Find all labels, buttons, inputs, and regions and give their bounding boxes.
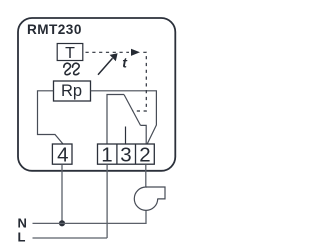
wire Rp left to terminal 4 — [38, 91, 64, 144]
wire Rp right down to terminal 2 — [91, 91, 157, 144]
sensor T box — [57, 44, 83, 61]
actuator circle — [134, 187, 157, 210]
svg-text:t: t — [122, 54, 128, 70]
switch blade — [124, 95, 141, 126]
temperature rise arrow — [98, 58, 113, 74]
dashed corner down to blade — [133, 52, 147, 111]
fixed contact stub terminal 3 — [125, 127, 127, 145]
junction dot on N line — [59, 220, 65, 226]
svg-text:T: T — [65, 45, 75, 62]
dashed action line from sensor T — [86, 51, 130, 53]
resistor Rp box — [54, 81, 91, 101]
svg-text:RMT230: RMT230 — [27, 22, 82, 37]
svg-text:L: L — [18, 229, 26, 244]
wire terminal 4 to N junction — [61, 164, 63, 223]
arrowhead on dashed line — [131, 49, 140, 56]
wire terminal 1 down to L line — [106, 164, 108, 238]
switch pole wire from terminal 1 — [107, 95, 124, 145]
actuator flag — [146, 187, 165, 199]
thermal coupling squiggle — [64, 63, 71, 74]
svg-text:N: N — [18, 216, 27, 231]
svg-text:1: 1 — [101, 144, 112, 167]
terminal 4 — [52, 144, 72, 164]
svg-text:2: 2 — [139, 144, 150, 167]
supply line L — [33, 237, 108, 239]
device outline RMT230 — [18, 18, 175, 171]
supply line N to actuator — [33, 210, 147, 223]
wire terminal 2 down to actuator — [145, 164, 147, 187]
terminal block 1 3 2 — [98, 144, 155, 164]
svg-text:3: 3 — [120, 144, 131, 167]
svg-text:4: 4 — [57, 144, 68, 167]
fixed contact to terminal 2 — [141, 125, 147, 144]
svg-text:Rp: Rp — [61, 82, 82, 100]
